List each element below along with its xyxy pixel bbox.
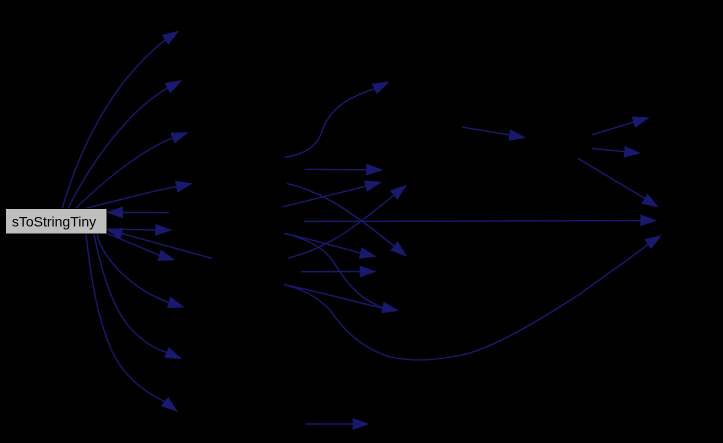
back edge into sToStringTiny (upper) xyxy=(107,207,169,217)
edge node2 to node3g xyxy=(301,266,375,276)
edge node2 to node3h (straight) xyxy=(284,285,385,309)
edge node2 to node3e (up cross) xyxy=(288,186,406,259)
edge to node2i (callee 9) xyxy=(86,234,177,411)
edge to node2h (callee 8) xyxy=(94,234,181,359)
edge to node2b (callee 2) xyxy=(68,81,181,209)
edge node2 to node3a xyxy=(285,82,389,157)
edge node4a to node5b xyxy=(592,147,640,157)
edge node2 to node3d (down cross) xyxy=(287,183,406,255)
long edge node2 to far right node xyxy=(304,215,656,225)
edge to node2f (callee 6) xyxy=(107,234,174,261)
edge node4a to node5a xyxy=(592,117,648,135)
edge node2 to node3h (curved) xyxy=(285,234,398,313)
svg-text:sToStringTiny: sToStringTiny xyxy=(12,214,96,230)
edge node2 to node3b xyxy=(305,164,382,174)
edge to node2g (callee 7) xyxy=(97,234,184,308)
edge to node2d (callee 4) xyxy=(85,182,191,209)
edge between bottom nodes xyxy=(306,419,369,429)
edge node4a to far right node xyxy=(578,159,657,207)
edge to node2e (callee 5) xyxy=(107,225,171,235)
edge node2 to node3f xyxy=(285,233,376,258)
long bottom S-curve to far right node xyxy=(284,236,661,360)
edge to node2c (callee 3) xyxy=(75,133,187,209)
edge node3 to node4a xyxy=(462,127,525,140)
edge to node2a (callee 1) xyxy=(62,32,178,210)
edge node2 to node3c xyxy=(282,181,381,207)
node sToStringTiny (current function) xyxy=(6,209,108,235)
back edge into sToStringTiny (lower) xyxy=(107,229,212,259)
